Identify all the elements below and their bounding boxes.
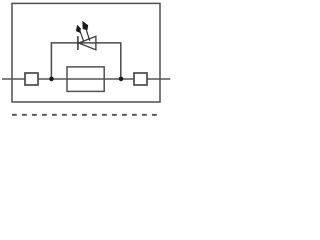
LED D1 emission arrow 2 [82,21,90,41]
node B junction dot [119,77,124,82]
LED D1 triangle [79,36,96,50]
node A junction dot [49,77,54,82]
DIN rail dashed line [12,114,157,116]
terminal block enclosure outline [12,3,160,102]
wire LED branch [51,43,120,79]
wire main through conductor [2,78,170,80]
terminal clamp right [134,73,147,85]
fuse F1 [67,67,104,92]
LED D1 emission arrow 1 [76,25,84,42]
LED D1 cathode bar [77,36,79,50]
terminal clamp left [25,73,38,85]
